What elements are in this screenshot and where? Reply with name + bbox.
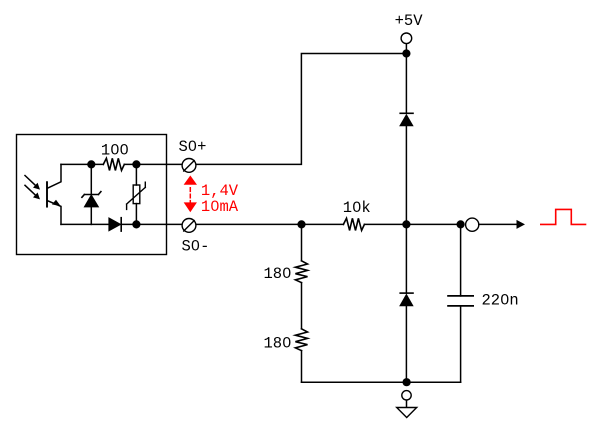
- wire: divider node down: [301, 224, 303, 260]
- wire: between 180s: [301, 283, 303, 329]
- wire: 10k to output: [364, 223, 460, 225]
- resistor R2 10k: [343, 218, 364, 230]
- wire: D3 to ground rail: [405, 306, 407, 383]
- node: varistor top junction: [132, 160, 140, 168]
- wire: S0- to 10k: [197, 223, 344, 225]
- wire: box to terminal S0+: [167, 163, 182, 165]
- wire: +5V down to diode D2: [405, 44, 407, 113]
- diode D1: [109, 218, 121, 231]
- node: mid junction: [402, 220, 410, 228]
- zener diode ZD1: [82, 164, 101, 224]
- terminal S0+: [182, 159, 196, 173]
- node: divider junction: [297, 220, 305, 228]
- output terminal: [466, 218, 479, 231]
- terminal S0-: [182, 219, 196, 233]
- optocoupler module box: [17, 135, 167, 255]
- light arrow 1: [25, 176, 40, 190]
- svg-text:+5V: +5V: [395, 12, 424, 30]
- wire: output lead: [479, 223, 517, 225]
- resistor R4 180 lower: [295, 329, 307, 351]
- wire: resistor to box edge: [124, 163, 166, 165]
- red measurement arrow: [185, 176, 196, 211]
- wire: emitter rail: [61, 223, 109, 225]
- ground symbol: [397, 391, 417, 418]
- wire: mid node down to D3: [405, 224, 407, 293]
- red pulse symbol: [541, 209, 586, 224]
- wire: box to terminal S0-: [167, 223, 182, 225]
- diode D2: [400, 113, 413, 125]
- wire: diode to box edge: [121, 223, 166, 225]
- wire: collector rail: [61, 163, 103, 165]
- node: +5V junction: [402, 49, 410, 57]
- node: diode-varistor junction: [132, 220, 140, 228]
- phototransistor Q1: [47, 164, 61, 224]
- resistor R1 100: [103, 158, 124, 170]
- wire: S0+ to +5V rail: [197, 54, 407, 165]
- diode D3: [400, 293, 413, 306]
- capacitor C1: [448, 224, 473, 382]
- resistor R3 180 upper: [295, 261, 307, 283]
- wire: D2 to mid node: [405, 126, 407, 225]
- output arrowhead: [517, 220, 526, 229]
- node: ground junction: [403, 378, 411, 386]
- node: output junction: [457, 220, 465, 228]
- light arrow 2: [25, 185, 40, 199]
- wire: lower 180 to ground rail: [301, 351, 303, 383]
- svg-text:220n: 220n: [482, 292, 519, 310]
- node: zener top junction: [87, 160, 95, 168]
- +5V supply terminal: [401, 33, 412, 44]
- svg-text:10mA: 10mA: [201, 198, 239, 216]
- varistor RV1: [127, 164, 146, 224]
- wire: ground rail: [302, 381, 461, 383]
